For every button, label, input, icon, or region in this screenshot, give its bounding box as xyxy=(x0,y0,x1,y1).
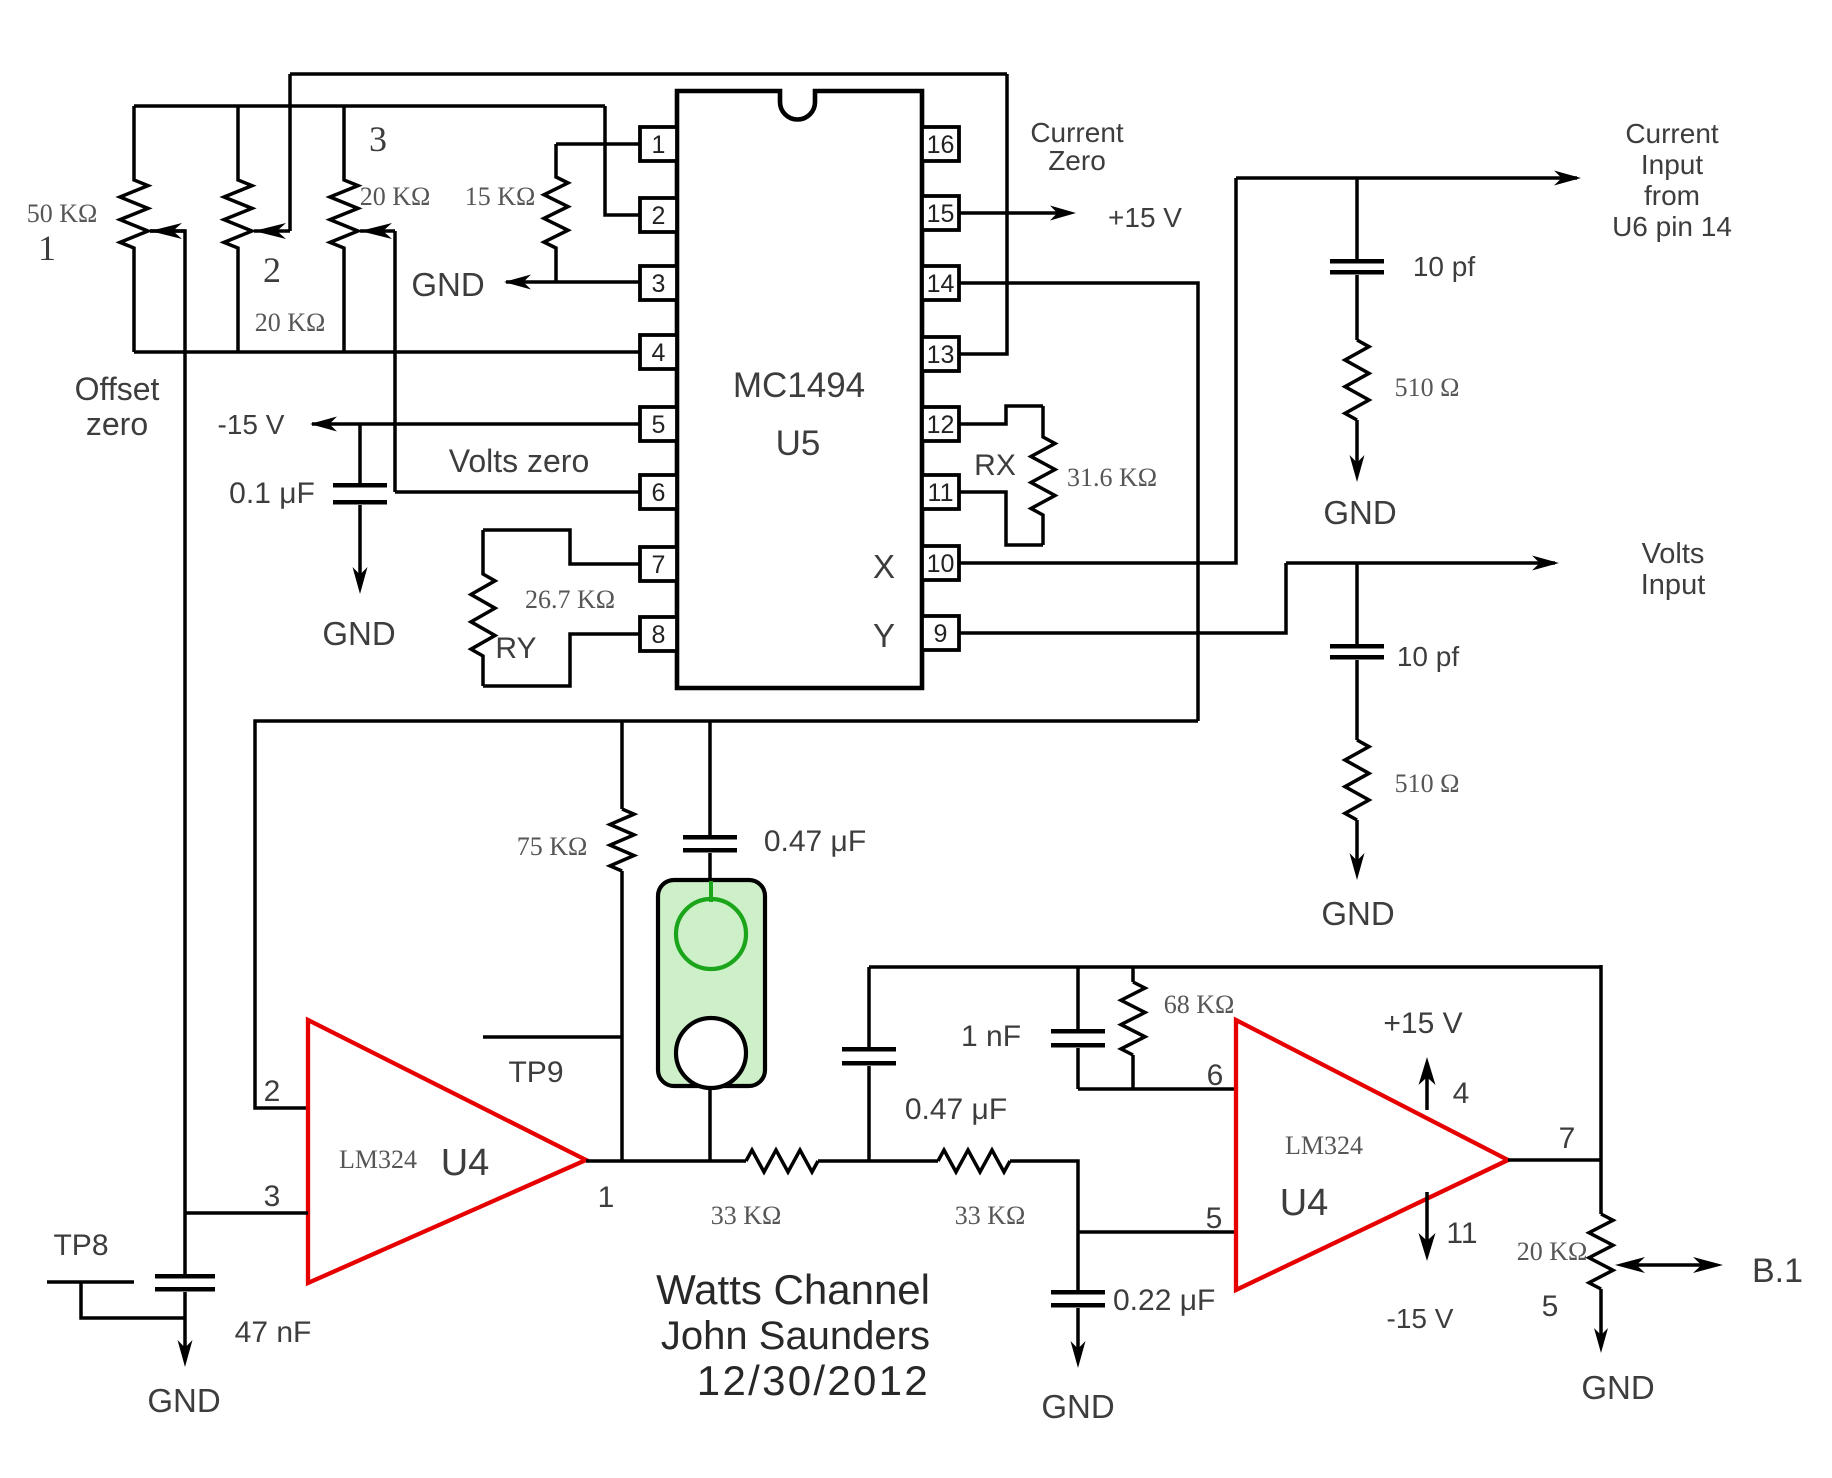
wire output U4-1 xyxy=(586,1159,746,1163)
wire pot bottom bus to pin 4 xyxy=(134,350,640,354)
wire volts input arrow xyxy=(1286,561,1555,565)
resistor 510 ohm lower xyxy=(1345,740,1369,820)
svg-text:16: 16 xyxy=(927,131,955,159)
svg-text:Watts Channel: Watts Channel xyxy=(656,1266,930,1313)
svg-text:12: 12 xyxy=(927,411,955,439)
svg-text:GND: GND xyxy=(1041,1388,1114,1425)
pin 4 box xyxy=(640,335,677,369)
svg-text:7: 7 xyxy=(1559,1122,1576,1155)
resistor 33 KΩ second xyxy=(938,1150,1010,1172)
svg-text:X: X xyxy=(873,548,895,585)
svg-text:LM324: LM324 xyxy=(339,1145,417,1174)
white circle xyxy=(676,1018,746,1088)
wire pin 2 drop from pot bus xyxy=(605,106,640,215)
svg-text:RX: RX xyxy=(974,449,1016,482)
resistor RY 26.7 KΩ xyxy=(471,530,495,686)
svg-text:14: 14 xyxy=(927,270,955,298)
svg-text:Offset: Offset xyxy=(75,371,160,407)
capacitor 1 nF xyxy=(1076,967,1080,1029)
svg-text:2: 2 xyxy=(263,250,281,290)
pin 6 box xyxy=(640,475,677,509)
potentiometer 1 wiper arrow xyxy=(150,229,186,233)
svg-text:Y: Y xyxy=(873,617,895,654)
svg-text:+15 V: +15 V xyxy=(1383,1007,1462,1040)
svg-text:5: 5 xyxy=(1206,1202,1223,1235)
pin 10 box xyxy=(922,546,959,580)
svg-text:Zero: Zero xyxy=(1048,145,1106,176)
wire pin 10 X to current input xyxy=(958,178,1236,563)
svg-text:0.1 μF: 0.1 μF xyxy=(229,477,315,510)
svg-text:B.1: B.1 xyxy=(1752,1252,1803,1290)
svg-text:8: 8 xyxy=(652,621,666,649)
resistor RX 31.6 KΩ xyxy=(1031,406,1055,545)
green lead from cap xyxy=(709,881,713,902)
capacitor 0.1 uF xyxy=(358,424,362,483)
svg-text:4: 4 xyxy=(652,339,666,367)
pin 11 box xyxy=(922,475,959,509)
svg-text:3: 3 xyxy=(369,119,387,159)
pin 1 box xyxy=(640,127,677,161)
arrow +15V supply xyxy=(1425,1076,1429,1110)
svg-text:zero: zero xyxy=(86,406,148,442)
svg-text:1 nF: 1 nF xyxy=(961,1020,1021,1053)
svg-text:5: 5 xyxy=(652,411,666,439)
wire pin 3 GND with arrow xyxy=(506,280,640,284)
wire pin 5 stub xyxy=(1078,1230,1236,1234)
svg-text:0.47 μF: 0.47 μF xyxy=(764,825,866,858)
pin 5 box xyxy=(640,407,677,441)
capacitor 10 pf upper xyxy=(1355,178,1359,259)
wire pin 12 jog xyxy=(958,406,1043,424)
svg-text:10 pf: 10 pf xyxy=(1397,641,1459,672)
svg-text:510 Ω: 510 Ω xyxy=(1395,373,1460,402)
resistor 75 KΩ branch xyxy=(620,721,624,809)
wire -15V to pin 5 xyxy=(312,422,640,426)
pin 2 box xyxy=(640,198,677,232)
svg-text:15: 15 xyxy=(927,200,955,228)
wire pin 1 to 15K top xyxy=(556,142,640,146)
pin 16 box xyxy=(922,127,959,161)
svg-text:12/30/2012: 12/30/2012 xyxy=(697,1357,930,1404)
svg-text:33 KΩ: 33 KΩ xyxy=(711,1201,782,1230)
svg-text:GND: GND xyxy=(411,266,484,303)
svg-text:-15 V: -15 V xyxy=(1387,1303,1454,1334)
svg-text:Current: Current xyxy=(1625,118,1719,149)
wire pin 3 from left rail xyxy=(185,1211,308,1215)
svg-text:-15 V: -15 V xyxy=(218,409,285,440)
wire output U4-7 xyxy=(1508,1158,1601,1162)
capacitor 0.47 uF branch xyxy=(708,721,712,835)
svg-text:26.7 KΩ: 26.7 KΩ xyxy=(525,585,615,614)
svg-text:9: 9 xyxy=(934,620,948,648)
wire feedback top xyxy=(869,965,1601,969)
svg-text:Input: Input xyxy=(1641,149,1703,180)
wire pin 15 +15V arrow xyxy=(958,211,1060,215)
svg-text:Volts zero: Volts zero xyxy=(449,443,590,479)
resistor 33 KΩ first xyxy=(746,1150,818,1172)
wire pin 7 jog xyxy=(483,530,640,564)
pin 14 box xyxy=(922,266,959,300)
svg-text:4: 4 xyxy=(1453,1077,1470,1110)
wire pin 11 jog xyxy=(958,492,1043,545)
wire pin 6 net xyxy=(1078,1087,1236,1091)
svg-text:7: 7 xyxy=(652,551,666,579)
wire current input arrow xyxy=(1236,176,1577,180)
svg-text:510 Ω: 510 Ω xyxy=(1395,769,1460,798)
op-amp U4 right LM324 xyxy=(1236,1020,1508,1290)
svg-text:0.22 μF: 0.22 μF xyxy=(1113,1284,1215,1317)
svg-text:47 nF: 47 nF xyxy=(235,1316,312,1349)
svg-text:68 KΩ: 68 KΩ xyxy=(1164,990,1235,1019)
svg-text:20 KΩ: 20 KΩ xyxy=(255,308,326,337)
resistor 15 KΩ xyxy=(544,144,568,282)
svg-text:1: 1 xyxy=(38,228,56,268)
svg-text:20 KΩ: 20 KΩ xyxy=(360,182,431,211)
pin 13 box xyxy=(922,337,959,371)
svg-text:Volts: Volts xyxy=(1642,538,1705,570)
pin 15 box xyxy=(922,196,959,230)
wire green component lead to output xyxy=(708,1086,712,1161)
svg-text:10: 10 xyxy=(927,550,955,578)
wire pot top bus xyxy=(134,104,605,108)
svg-text:GND: GND xyxy=(1581,1369,1654,1406)
svg-text:31.6 KΩ: 31.6 KΩ xyxy=(1067,463,1157,492)
svg-text:Current: Current xyxy=(1030,117,1124,148)
wire 33K to pin5 corner xyxy=(1010,1161,1078,1290)
potentiometer 3 20 KΩ body xyxy=(330,106,358,352)
svg-text:GND: GND xyxy=(322,615,395,652)
svg-text:1: 1 xyxy=(598,1181,615,1214)
svg-text:U6 pin 14: U6 pin 14 xyxy=(1612,211,1732,242)
wire TP8 stub xyxy=(47,1280,134,1284)
svg-text:5: 5 xyxy=(1542,1290,1559,1323)
green circle xyxy=(676,899,746,969)
potentiometer 2 20 KΩ body xyxy=(224,106,252,352)
svg-text:Input: Input xyxy=(1641,569,1706,601)
op-amp U4 left LM324 xyxy=(308,1020,586,1283)
svg-text:15 KΩ: 15 KΩ xyxy=(465,182,536,211)
svg-text:20 KΩ: 20 KΩ xyxy=(1517,1237,1588,1266)
svg-text:LM324: LM324 xyxy=(1285,1131,1363,1160)
potentiometer 1 50 KΩ body xyxy=(120,106,148,352)
resistor 510 ohm upper xyxy=(1345,340,1369,420)
svg-text:10 pf: 10 pf xyxy=(1413,251,1475,282)
svg-text:11: 11 xyxy=(1446,1217,1477,1250)
capacitor 0.47 uF second xyxy=(867,1066,871,1161)
svg-text:6: 6 xyxy=(652,479,666,507)
svg-text:GND: GND xyxy=(147,1382,220,1419)
svg-text:TP9: TP9 xyxy=(508,1056,563,1089)
svg-text:+15 V: +15 V xyxy=(1108,202,1182,233)
svg-text:U5: U5 xyxy=(776,424,821,463)
potentiometer 3 wiper arrow to pin 6 net xyxy=(360,229,395,233)
wire 47nF to GND xyxy=(183,1292,187,1349)
wire pin 13 from top bus xyxy=(958,74,1007,354)
pin 9 box xyxy=(922,616,959,650)
wire pin 14 to lower bus xyxy=(958,283,1198,721)
arrow -15V supply xyxy=(1425,1192,1429,1243)
svg-text:3: 3 xyxy=(652,270,666,298)
green test point body xyxy=(658,880,765,1086)
potentiometer 2 wiper arrow to top bus xyxy=(254,229,290,233)
svg-text:2: 2 xyxy=(264,1075,281,1108)
wire lower bus pin14 net xyxy=(255,721,1198,1108)
wire pin 8 jog xyxy=(483,634,640,686)
svg-text:3: 3 xyxy=(264,1180,281,1213)
pin 7 box xyxy=(640,547,677,581)
svg-text:33 KΩ: 33 KΩ xyxy=(955,1201,1026,1230)
wire left rail from pot1 wiper xyxy=(150,231,185,1274)
svg-text:TP8: TP8 xyxy=(53,1229,108,1262)
svg-text:11: 11 xyxy=(928,479,954,507)
resistor 68 KΩ xyxy=(1131,967,1135,982)
svg-text:GND: GND xyxy=(1323,494,1396,531)
svg-text:1: 1 xyxy=(652,131,666,159)
pot wiper double arrow B.1 xyxy=(1637,1263,1706,1267)
wire between 33Ks xyxy=(818,1159,938,1163)
wire pin 9 Y to volts input xyxy=(958,563,1286,633)
svg-text:John Saunders: John Saunders xyxy=(661,1314,930,1358)
svg-text:6: 6 xyxy=(1207,1059,1224,1092)
capacitor 47 nF xyxy=(155,1274,215,1279)
svg-text:50 KΩ: 50 KΩ xyxy=(27,199,98,228)
capacitor 0.22 uF xyxy=(1051,1290,1105,1295)
svg-text:GND: GND xyxy=(1321,895,1394,932)
svg-text:U4: U4 xyxy=(441,1142,490,1184)
svg-text:75 KΩ: 75 KΩ xyxy=(517,832,588,861)
potentiometer 20 KΩ output xyxy=(1589,1214,1613,1289)
wire TP9 stub xyxy=(483,1035,622,1039)
svg-text:from: from xyxy=(1644,180,1700,211)
wire right rail xyxy=(1599,965,1603,1214)
wire pin 6 volts zero xyxy=(395,490,640,494)
svg-text:13: 13 xyxy=(927,341,955,369)
wire top bus from pot2 wiper to pin 13 drop xyxy=(290,72,1007,76)
pin 3 box xyxy=(640,266,677,300)
pin 12 box xyxy=(922,407,959,441)
pin 8 box xyxy=(640,617,677,651)
svg-text:0.47 μF: 0.47 μF xyxy=(905,1093,1007,1126)
svg-text:MC1494: MC1494 xyxy=(733,366,865,405)
capacitor 10 pf lower xyxy=(1355,563,1359,644)
IC U5 MC1494 body xyxy=(677,91,922,688)
svg-text:RY: RY xyxy=(495,632,536,665)
svg-text:2: 2 xyxy=(652,202,666,230)
svg-text:U4: U4 xyxy=(1280,1182,1329,1224)
